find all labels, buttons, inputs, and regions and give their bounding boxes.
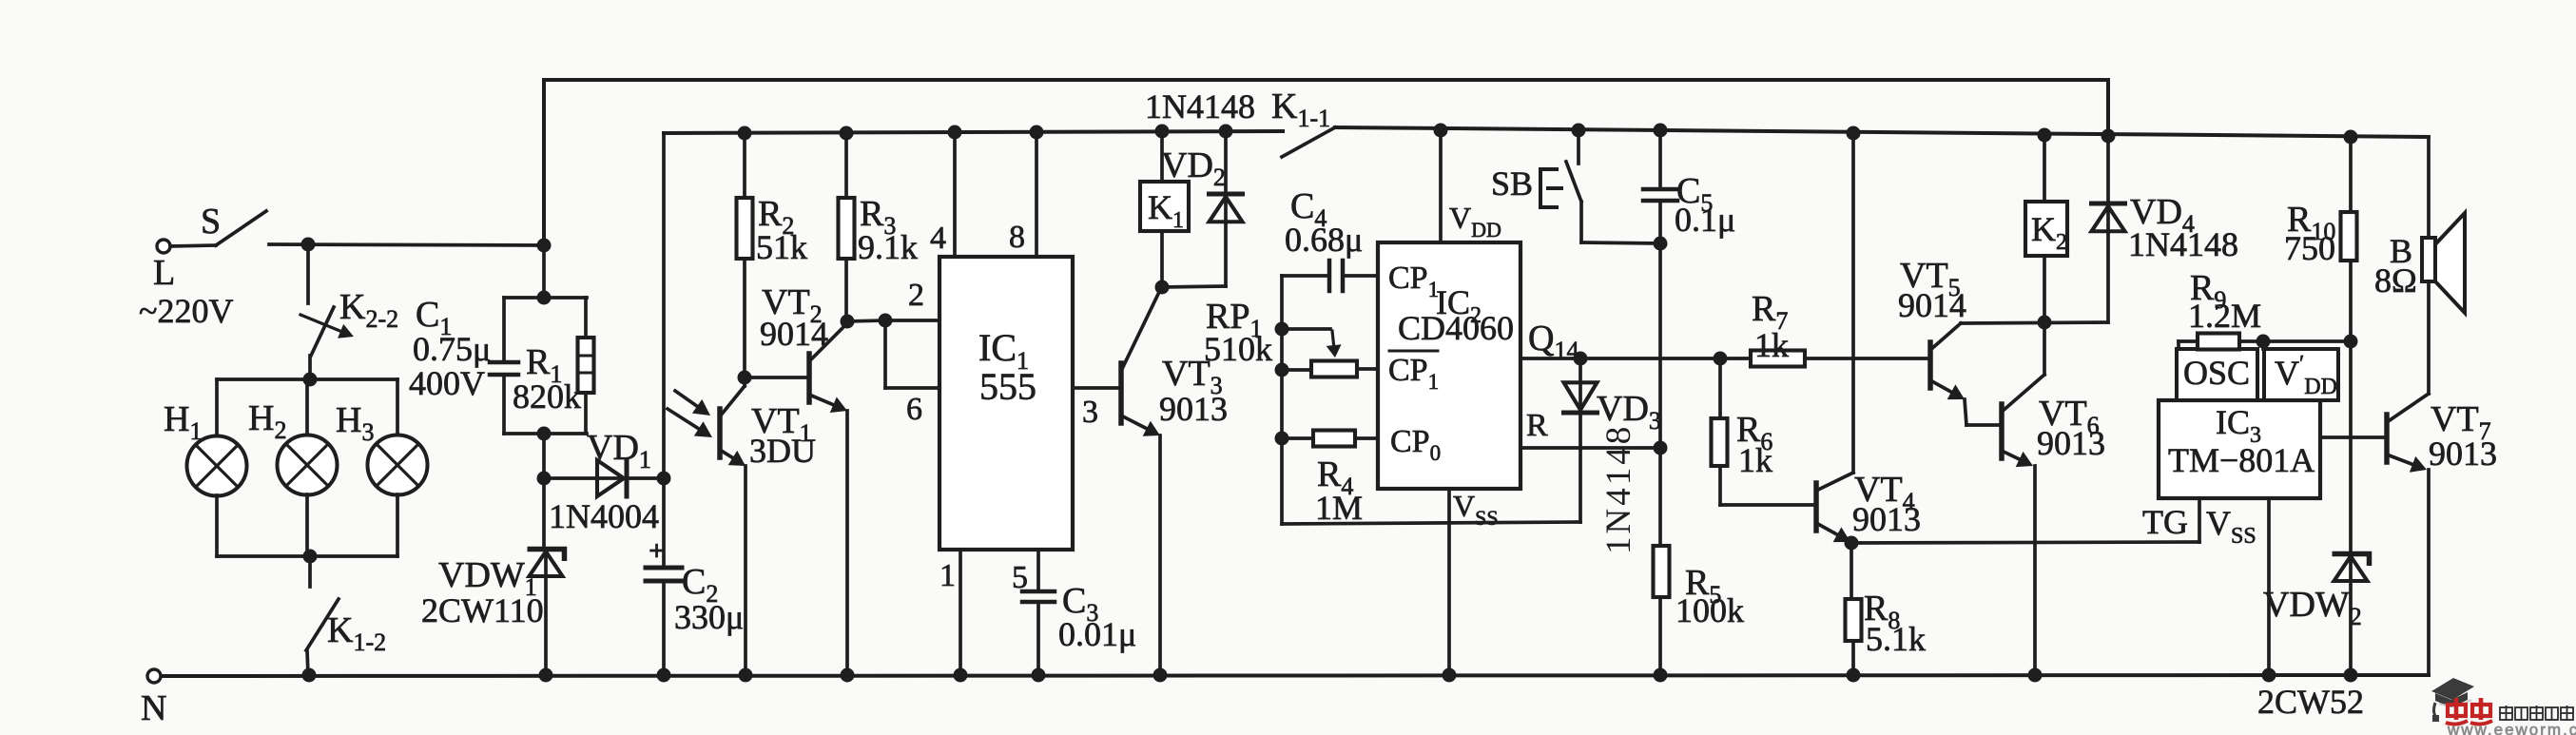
svg-text:6: 6	[906, 392, 922, 427]
node C3 on N rail	[1032, 668, 1046, 683]
svg-text:H1: H1	[164, 399, 202, 445]
lamp H3	[368, 435, 428, 495]
wire C1 branch upper	[502, 298, 506, 362]
transistor VT3 9013	[1118, 363, 1124, 423]
push button SB actuator	[1540, 169, 1557, 207]
wire VD4 top	[2106, 136, 2110, 232]
svg-text:VD1: VD1	[587, 428, 651, 474]
wire R1 branch upper	[584, 298, 588, 338]
wire top rail right drop	[2106, 80, 2110, 136]
node VT4 col on rail	[1847, 126, 1861, 141]
wire VT1 emitter down	[744, 466, 747, 675]
wire R9 left	[2179, 339, 2198, 343]
wire VT5 collector bus	[1961, 322, 2108, 323]
node pin4 on rail	[948, 126, 962, 140]
wire R3 bottom	[844, 259, 848, 320]
svg-text:0.1μ: 0.1μ	[1675, 201, 1735, 239]
node K2 on rail	[2038, 128, 2052, 143]
svg-text:8: 8	[1009, 220, 1025, 255]
wire pin1 drop	[959, 550, 962, 675]
wire C1R1 to VD1 node	[542, 434, 546, 478]
svg-text:1N4148: 1N4148	[1145, 87, 1255, 126]
svg-text:K2-2: K2-2	[339, 287, 398, 333]
wire L phase line	[269, 244, 544, 245]
wire pin4 drop	[953, 132, 957, 257]
capacitor C1	[490, 360, 518, 365]
svg-text:9014: 9014	[760, 315, 828, 353]
wire VT6 collector up	[2043, 322, 2046, 375]
svg-text:820k: 820k	[513, 377, 581, 416]
node C5 on rail	[1654, 124, 1668, 138]
wire VT2 emitter down	[845, 411, 849, 675]
wire K1 bottom	[1160, 231, 1164, 287]
wire pin2-6 link	[883, 320, 887, 388]
wire VT4 emitter to R8	[1850, 543, 1853, 599]
wire VSS loop right riser	[1579, 449, 1582, 522]
wire lamp top bus	[217, 377, 397, 381]
watermark cap	[2431, 678, 2474, 700]
wire VD2 top	[1224, 131, 1228, 222]
wire R2 top	[743, 133, 746, 198]
wire VDD drop	[1439, 130, 1443, 242]
wiper RP1	[1282, 327, 1330, 331]
svg-text:~220V: ~220V	[139, 292, 233, 330]
resistor R4	[1313, 431, 1355, 447]
svg-text:R: R	[1526, 408, 1548, 443]
svg-text:555: 555	[979, 365, 1036, 408]
node VT2 emitter on N rail	[841, 668, 855, 683]
wire VT2 collector bus	[847, 320, 885, 321]
resistor R3	[839, 198, 855, 259]
wire VT1 collector up	[743, 377, 746, 386]
node VD2 on rail	[1219, 125, 1233, 139]
node VDW2 on N rail	[2344, 668, 2358, 683]
svg-text:3DU: 3DU	[749, 432, 816, 470]
wire K2 bottom	[2043, 256, 2046, 322]
svg-text:100k: 100k	[1675, 591, 1744, 629]
watermark chong1	[2446, 698, 2468, 725]
node Q14 VD3	[1574, 352, 1588, 366]
svg-text:330μ: 330μ	[674, 598, 744, 636]
switch K1-1 blade	[1282, 127, 1335, 157]
switch K2-2 arrow	[300, 315, 340, 331]
wire H3 top stub	[396, 379, 399, 435]
node VD1 to C2 column	[657, 472, 671, 486]
transistor VT5 9014	[1927, 342, 1933, 388]
wire VD3 bottom stub	[1579, 413, 1582, 449]
wire VD2 bottom	[1224, 222, 1228, 286]
resistor R8	[1846, 599, 1862, 641]
svg-text:SB: SB	[1491, 164, 1533, 203]
wire R5 bottom	[1658, 597, 1662, 675]
wire K2-2 to lamp bus	[308, 356, 312, 378]
node C1R1 bottom	[537, 427, 552, 441]
svg-text:9013: 9013	[2429, 435, 2497, 473]
switch K2-2 blade	[311, 307, 334, 356]
capacitor C5	[1643, 187, 1677, 192]
switch S blade	[216, 211, 266, 245]
svg-text:CD4060: CD4060	[1398, 309, 1514, 347]
node C1R1 top	[537, 291, 552, 305]
switch K1-2 blade	[306, 599, 339, 650]
wire R line	[1520, 446, 1660, 450]
svg-text:1N4004: 1N4004	[549, 497, 659, 535]
svg-text:K1-2: K1-2	[327, 610, 386, 656]
wire H2 bottom stub	[305, 494, 309, 556]
node VDD on rail	[1434, 124, 1448, 138]
transistor VT2 9014	[806, 354, 812, 402]
transistor VT6 9013	[1999, 404, 2005, 458]
node SB C5 junction	[1654, 237, 1668, 251]
svg-text:51k: 51k	[756, 228, 807, 266]
svg-text:2CW110: 2CW110	[421, 591, 544, 629]
wire VDW2 column	[2349, 341, 2353, 554]
wire R10 bottom	[2349, 261, 2353, 341]
node R line end	[1654, 441, 1668, 455]
svg-text:510k: 510k	[1204, 330, 1272, 368]
wire pin3 stub	[1073, 386, 1119, 390]
node VD1 junction	[537, 472, 552, 486]
node bus wiper	[1275, 322, 1289, 337]
wire VD1 anode	[544, 476, 624, 480]
wire second rail right segment	[1335, 127, 2429, 137]
wire R4 right	[1355, 436, 1378, 440]
node pin1 on N rail	[954, 668, 968, 683]
node R10 on rail	[2344, 130, 2358, 145]
wire SB top stub	[1577, 130, 1580, 164]
wire C5 top stub	[1658, 130, 1662, 189]
resistor R1	[578, 338, 594, 393]
wire R6 top	[1718, 358, 1722, 418]
node VSS on N rail	[1443, 668, 1457, 683]
svg-text:L: L	[153, 253, 175, 293]
node R5 on N rail	[1654, 668, 1668, 683]
wire VT4 collector drop	[1851, 133, 1855, 473]
svg-text:1.2M: 1.2M	[2188, 297, 2261, 335]
wire C1R1 top stub	[542, 245, 546, 298]
svg-text:N: N	[141, 688, 166, 728]
op-amp IC1 555 box	[939, 257, 1073, 550]
wire VT3 emitter down	[1158, 435, 1162, 675]
wire R4 left	[1282, 436, 1313, 440]
wire VT7 emitter down	[2427, 470, 2431, 675]
wire RP1 right	[1357, 367, 1378, 371]
wire pin6 stub	[885, 386, 939, 390]
svg-text:1N4148: 1N4148	[2128, 225, 2238, 263]
wire IC3 VSS drop	[2267, 498, 2271, 675]
phototransistor VT1 3DU	[717, 409, 723, 457]
node VD4 on rail	[2101, 129, 2116, 144]
svg-text:OSC: OSC	[2183, 354, 2250, 392]
svg-text:VD2: VD2	[1161, 145, 1226, 191]
diode VD1 1N4004	[597, 460, 624, 496]
light arrow 2	[668, 409, 699, 429]
node B (rail drop junction)	[537, 239, 552, 253]
wire speaker to VT7	[2427, 281, 2431, 394]
node bus R4	[1275, 432, 1289, 446]
capacitor C3	[1022, 590, 1055, 594]
wire C1R1 top edge	[504, 296, 587, 300]
svg-text:S: S	[201, 202, 221, 242]
transistor VT4 9013	[1813, 483, 1819, 531]
wire R2 bottom	[743, 259, 746, 377]
speaker B	[2422, 238, 2435, 281]
IC IC2 CD4060 box	[1378, 242, 1520, 489]
node Q14 R6R7	[1714, 352, 1728, 366]
node VDW1 on N rail	[539, 668, 553, 683]
svg-text:9013: 9013	[1159, 390, 1228, 428]
svg-text:5.1k: 5.1k	[1866, 620, 1926, 658]
node pin2 junction	[879, 314, 893, 328]
svg-text:2CW52: 2CW52	[2257, 683, 2364, 721]
wire VSS drop	[1447, 489, 1451, 675]
wire VT6 emitter down	[2033, 466, 2037, 675]
wire K2 top	[2043, 135, 2046, 202]
wire H2 top stub	[305, 379, 309, 435]
node A (S to C1 junction)	[301, 238, 316, 252]
lamp H2	[278, 435, 338, 495]
node VT4 emitter	[1845, 536, 1859, 551]
resistor R10	[2341, 212, 2357, 261]
svg-text:3: 3	[1082, 395, 1098, 430]
wire R6 to VT4 base	[1718, 466, 1722, 505]
wire H1 top stub	[215, 379, 219, 436]
svg-text:1: 1	[939, 558, 956, 593]
wire R3 top	[844, 133, 848, 198]
wire TG line	[1851, 542, 2199, 543]
svg-text:H3: H3	[336, 400, 374, 446]
svg-text:750: 750	[2284, 229, 2335, 267]
node VT1 emitter on N rail	[739, 668, 753, 683]
wire SB bottom link	[1581, 242, 1660, 243]
wire C1 branch lower	[502, 375, 506, 434]
relay K2 box	[2025, 202, 2067, 256]
wire R9 to R10 column	[2263, 339, 2351, 343]
svg-text:1k: 1k	[1738, 441, 1772, 479]
IC IC3 box	[2159, 400, 2320, 498]
watermark cn text	[2500, 706, 2512, 721]
lamp H1	[187, 436, 247, 496]
wire K1 top	[1160, 131, 1164, 182]
svg-text:VSS: VSS	[2206, 504, 2256, 549]
svg-text:9013: 9013	[2037, 424, 2105, 462]
node lamp bottom bus	[303, 550, 318, 564]
wire K1-2 to N rail	[307, 650, 308, 675]
node VT3 collector	[1155, 280, 1170, 295]
node R9 VDD	[2256, 335, 2271, 349]
node VT2 collector	[841, 315, 855, 329]
terminal N	[147, 669, 161, 683]
svg-text:TG: TG	[2142, 503, 2188, 541]
node K1 on rail	[1155, 125, 1170, 139]
resistor R7	[1751, 351, 1805, 367]
svg-text:K1-1: K1-1	[1271, 87, 1330, 132]
resistor R5	[1654, 546, 1670, 597]
svg-text:9.1k: 9.1k	[858, 228, 918, 266]
node VT3 emitter on N rail	[1153, 668, 1168, 683]
svg-text:1k: 1k	[1754, 326, 1789, 364]
wire RP1 left	[1282, 368, 1311, 372]
svg-text:400V: 400V	[409, 364, 485, 402]
wire C1R1 bottom edge	[504, 432, 587, 435]
light arrow 1	[675, 391, 697, 406]
wire VD1 cathode	[627, 476, 664, 480]
wire top rail left drop	[542, 80, 546, 246]
wire R10 top	[2349, 137, 2353, 212]
svg-text:0.75μ: 0.75μ	[413, 330, 491, 368]
wire pin2 stub	[885, 319, 939, 322]
wire bottom neutral rail	[160, 675, 2429, 676]
wire pin8 drop	[1035, 132, 1038, 257]
wire H1 bottom stub	[215, 495, 219, 556]
wire K2-2 top stub	[306, 244, 310, 303]
wire pin5 drop	[1036, 550, 1040, 591]
wire VT7 base	[2320, 435, 2385, 439]
node IC3 VSS on N rail	[2262, 668, 2276, 683]
resistor R9	[2198, 334, 2239, 350]
zener VDW2 2CW52	[2349, 554, 2353, 675]
zener VDW1 2CW110	[542, 478, 546, 550]
wire lamp bus down stub	[308, 556, 312, 587]
node R8 on N rail	[1847, 668, 1861, 683]
wire second rail left segment	[664, 131, 1283, 133]
svg-text:0.68μ: 0.68μ	[1285, 221, 1363, 259]
resistor R6	[1712, 418, 1728, 466]
wire VDD box stub	[2261, 341, 2265, 349]
node VT6 emitter on N rail	[2028, 668, 2043, 683]
wire VT2 base	[745, 376, 807, 379]
wire VD4 bottom	[2106, 232, 2110, 322]
wire speaker drop	[2427, 137, 2431, 238]
svg-text:TM−801A: TM−801A	[2168, 441, 2315, 479]
svg-text:1N4148: 1N4148	[1599, 424, 1638, 554]
box VDD2	[2264, 349, 2338, 400]
diode VD2	[1210, 197, 1243, 222]
wire R8 bottom	[1851, 641, 1855, 675]
wire R1 branch lower	[584, 393, 588, 434]
node lamp top bus	[303, 373, 318, 387]
potentiometer RP1	[1311, 361, 1357, 377]
svg-text:VDD: VDD	[1449, 201, 1501, 242]
svg-text:VDW2: VDW2	[2263, 585, 2362, 630]
wire C3 down	[1036, 602, 1040, 675]
wire VT5 emitter link	[1965, 399, 1966, 425]
diode VD4	[2092, 206, 2125, 231]
resistor R2	[737, 198, 753, 259]
relay K1 box	[1140, 182, 1189, 231]
svg-text:Q14: Q14	[1528, 319, 1579, 364]
wire Q14 line	[1520, 357, 1929, 360]
svg-text:9013: 9013	[1852, 500, 1921, 538]
wire R9 right	[2239, 339, 2263, 343]
svg-text:+: +	[649, 535, 665, 567]
wire C5 down	[1658, 201, 1662, 448]
box OSC	[2177, 349, 2257, 400]
node VT2 base junction	[738, 371, 752, 385]
wire left bus	[1280, 276, 1284, 524]
node R10 bottom junction	[2344, 335, 2358, 349]
diode VD3	[1564, 382, 1598, 410]
wire H3 bottom stub	[396, 494, 399, 556]
svg-text:www.eeworm.com: www.eeworm.com	[2447, 721, 2576, 735]
svg-text:8Ω: 8Ω	[2374, 261, 2417, 300]
node R3 on rail	[840, 126, 854, 141]
watermark chong2	[2470, 698, 2492, 725]
svg-text:H2: H2	[248, 398, 286, 444]
svg-text:9014: 9014	[1898, 286, 1966, 324]
capacitor C4	[1282, 274, 1327, 278]
terminal L	[157, 240, 170, 253]
wire C2 column	[662, 133, 666, 568]
svg-text:0.01μ: 0.01μ	[1058, 615, 1136, 653]
node R2 on rail	[738, 126, 752, 141]
node K1-2 on N rail	[302, 668, 317, 683]
wire R5 top	[1658, 448, 1662, 546]
svg-text:2: 2	[908, 278, 924, 313]
node pin8 on rail	[1030, 126, 1044, 140]
capacitor C2 electrolytic	[646, 566, 682, 571]
wire VD3 top stub	[1579, 358, 1582, 410]
node SB on rail	[1572, 124, 1586, 138]
node bus RP1	[1275, 363, 1289, 377]
svg-text:1M: 1M	[1315, 489, 1363, 527]
wire lamp bottom bus	[217, 554, 397, 558]
node K2 bottom junction	[2038, 316, 2052, 330]
svg-text:4: 4	[930, 221, 946, 256]
transistor VT7 9013	[2384, 415, 2390, 462]
wire top supply rail	[544, 78, 2108, 82]
node C2 on N rail	[657, 668, 671, 683]
wire TG stub	[2198, 498, 2201, 542]
switch SB blade	[1566, 162, 1581, 202]
wire VSS loop bottom	[1282, 522, 1580, 524]
